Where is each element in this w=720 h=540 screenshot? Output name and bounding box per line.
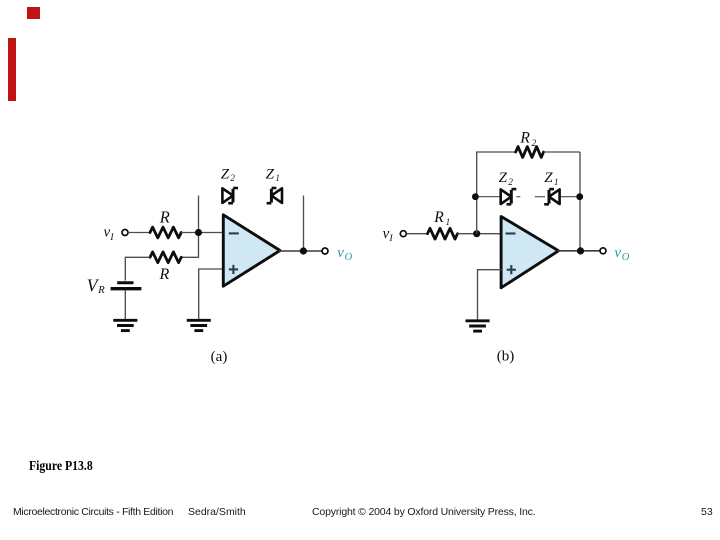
wire zener row: node to Z2 anode (b) — [477, 196, 501, 198]
svg-text:Z: Z — [221, 166, 230, 182]
op-amp U1 (a) — [223, 215, 280, 286]
resistor R (top, a) — [150, 227, 181, 238]
wire R2 top feedback left segment (b) — [476, 151, 516, 153]
input terminal vI (a) — [122, 230, 128, 236]
svg-text:(b): (b) — [497, 349, 515, 365]
resistor R2 (b) — [516, 147, 544, 158]
svg-text:Z: Z — [499, 170, 508, 186]
red template bar (slide decoration) — [8, 38, 16, 101]
svg-text:v: v — [337, 245, 344, 261]
junction dot zener row right (b) — [576, 193, 583, 200]
wire feedback stub right of Z1 down to output (a) — [303, 196, 305, 251]
svg-text:Z: Z — [266, 166, 275, 182]
footer authors — [188, 506, 246, 518]
label Z2 (b) — [499, 170, 514, 187]
svg-text:R: R — [433, 209, 444, 226]
junction dot output node (a) — [300, 247, 307, 254]
label Z1 (b) — [544, 170, 558, 187]
zener diode Z1 (a) — [267, 188, 282, 203]
svg-text:I: I — [109, 233, 114, 243]
figure caption text — [29, 458, 93, 474]
svg-text:Z: Z — [544, 170, 553, 186]
label Z2 (a) — [221, 166, 236, 183]
svg-text:R: R — [159, 266, 170, 283]
footer book title — [13, 506, 173, 518]
output terminal vO (a) — [322, 248, 328, 254]
svg-text:2: 2 — [230, 173, 235, 183]
wire resistor R top to inverting node (a) — [181, 232, 223, 234]
wire vertical: zener feedback stub down through inverting node to lower R (a) — [198, 196, 200, 258]
wire vI terminal to resistor R top (a) — [128, 232, 150, 234]
label VR (a) — [87, 275, 106, 296]
wire lower resistor R to node vertical (a) — [181, 256, 199, 258]
output terminal vO (b) — [600, 248, 606, 254]
svg-text:v: v — [614, 245, 621, 261]
label vI (a) — [104, 225, 115, 243]
input terminal vI (b) — [400, 231, 406, 237]
svg-text:(a): (a) — [211, 349, 228, 365]
svg-text:O: O — [345, 252, 353, 263]
zener diode Z2 (b) — [501, 189, 517, 204]
red template square (slide decoration) — [27, 7, 40, 19]
battery VR (a) — [111, 283, 142, 289]
junction dot inverting node (b) — [473, 230, 480, 237]
ground (b) — [466, 321, 490, 331]
wire vI terminal to resistor R1 (b) — [407, 233, 429, 235]
op-amp U1 (b) — [501, 217, 558, 288]
label vO (b) — [614, 245, 629, 263]
wire R2 top feedback right segment (b) — [544, 151, 580, 153]
footer copyright — [312, 506, 536, 518]
zener diode Z2 (a) — [222, 188, 238, 203]
label R1 (b) — [433, 209, 450, 227]
wire stub left of Z1 (b) — [535, 196, 545, 198]
wire stub right of Z2 (b) — [516, 196, 520, 198]
junction dot output node (b) — [577, 247, 584, 254]
svg-text:R: R — [519, 130, 530, 147]
ground (a, non-inverting input) — [187, 320, 211, 330]
wire right feedback vertical (b) — [579, 152, 581, 251]
svg-text:1: 1 — [446, 217, 451, 227]
wire lower R left to battery VR (a) — [125, 257, 150, 280]
svg-text:O: O — [622, 252, 630, 263]
junction dot zener row left (b) — [472, 193, 479, 200]
label vO (a) — [337, 245, 352, 263]
resistor R1 (b) — [428, 228, 458, 239]
svg-text:I: I — [389, 234, 394, 244]
label R2 (b) — [519, 130, 536, 148]
label Z1 (a) — [266, 166, 280, 183]
junction dot inverting node (a) — [195, 229, 202, 236]
zener diode Z1 (b) — [544, 189, 559, 204]
wire non-inverting input to ground (b) — [478, 270, 502, 320]
wire left feedback vertical (b) — [476, 152, 478, 234]
svg-text:R: R — [97, 285, 105, 296]
ground (a, under battery) — [113, 320, 137, 330]
wire R1 to inverting node (b) — [458, 233, 502, 235]
footer page number — [701, 506, 713, 518]
svg-text:2: 2 — [508, 177, 513, 187]
wire non-inverting input to ground (a) — [199, 269, 224, 319]
svg-text:1: 1 — [275, 173, 280, 183]
wire op-amp output (b) — [558, 250, 601, 252]
wire battery to ground (a left) — [124, 290, 126, 319]
label vI (b) — [383, 226, 394, 244]
resistor R (lower, a) — [150, 252, 181, 263]
wire Z1 cathode to right node (b) — [560, 196, 580, 198]
svg-text:1: 1 — [554, 177, 559, 187]
svg-text:R: R — [159, 208, 170, 227]
wire op-amp output (a) — [279, 250, 322, 252]
